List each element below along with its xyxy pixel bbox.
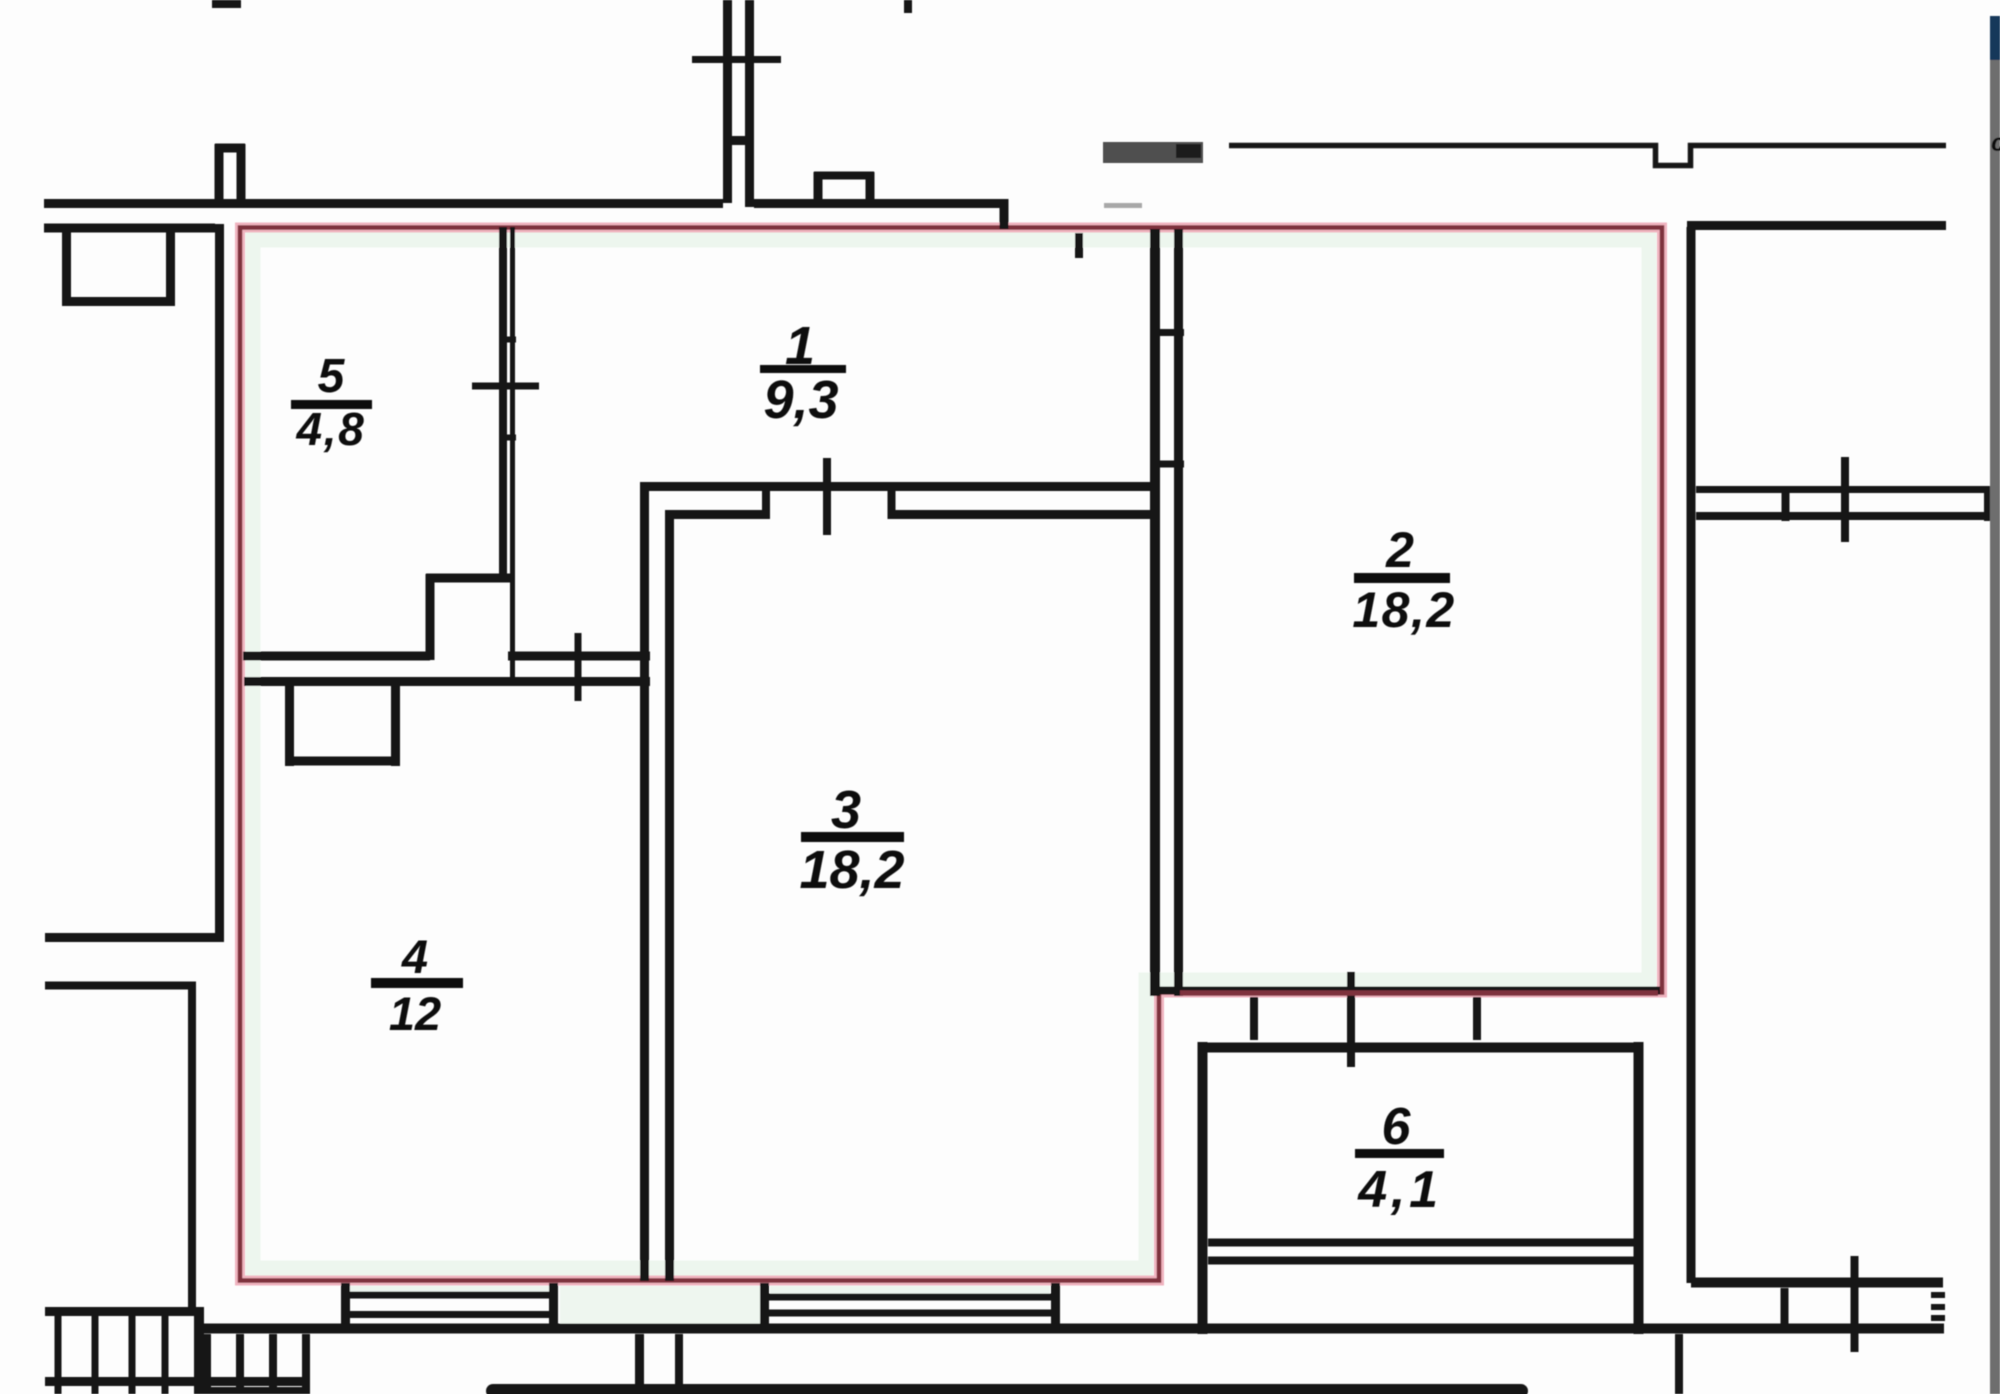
- door strip tint between windows: [560, 1286, 762, 1324]
- room4 top wall lower line: [244, 677, 650, 686]
- right edge navy block: [1990, 16, 2000, 60]
- room3 left wall outer / room3-room4 divider left: [640, 483, 649, 1281]
- svg-text:12: 12: [389, 987, 441, 1040]
- room label 3: [799, 780, 904, 900]
- right edge gray strip: [1990, 60, 2000, 1394]
- room6 top wall: [1199, 1043, 1643, 1053]
- ventilation shaft left line: [723, 0, 732, 203]
- bottom neighbour rounded bar: [486, 1384, 1528, 1394]
- window room3 upper sill line: [768, 1294, 1052, 1301]
- room6 left wall: [1198, 1042, 1208, 1334]
- jamb stub below top red wall: [1075, 233, 1083, 258]
- room1/room2 divider left line: [1150, 229, 1160, 996]
- window room4 jamb right: [549, 1283, 558, 1326]
- right neighbour interior jamb 2: [1984, 486, 1992, 521]
- room label 1: [760, 316, 846, 430]
- divider 1-2 crossbar upper: [1150, 329, 1184, 336]
- right neighbour bottom ladder marks: [1931, 1292, 1945, 1298]
- room6 inner rail lower line: [1208, 1257, 1643, 1265]
- apartment outline inner green glow: [253, 240, 1649, 1268]
- apartment bottom outer wall: [194, 1324, 1944, 1334]
- room3 top wall outer line: [640, 482, 1159, 491]
- verticals under room3/4 divider: [635, 1334, 644, 1387]
- right neighbour interior jamb: [1782, 486, 1790, 521]
- room label 5: [291, 350, 372, 455]
- left neighbour vertical wall: [188, 982, 196, 1316]
- pillar stub above top wall: [215, 144, 224, 203]
- right neighbour interior wall lower line: [1696, 512, 2000, 520]
- light gray dash: [1104, 203, 1142, 208]
- room5 step top line: [426, 574, 512, 583]
- room3 top wall window tick: [823, 458, 831, 535]
- top wall end hook: [1000, 199, 1009, 229]
- left staircase outer vertical: [194, 1307, 204, 1394]
- left neighbour balcony box: [62, 230, 71, 306]
- top right thin line with notch: [1229, 146, 1946, 166]
- apartment outline red boundary (dark core): [240, 228, 1662, 1281]
- window room4 lower sill line: [341, 1311, 558, 1318]
- bump above top wall: [814, 172, 823, 200]
- room5/room1 divider right line: [510, 227, 515, 682]
- right neighbour left wall: [1687, 227, 1696, 1283]
- right neighbour top wall: [1687, 221, 1946, 230]
- top outer wall (left of shaft): [44, 199, 723, 208]
- divider crossbar lower: [499, 435, 516, 441]
- top outer wall (right of shaft): [754, 199, 1008, 208]
- room1/room2 divider right line: [1174, 229, 1183, 996]
- left neighbour wall at y1311: [45, 1307, 199, 1316]
- svg-text:3: 3: [831, 780, 861, 840]
- room5/room1 divider left line: [499, 227, 507, 578]
- staircase bottom bar: [196, 1387, 310, 1394]
- svg-text:18,2: 18,2: [1352, 582, 1455, 638]
- divider crossbar upper: [499, 337, 516, 343]
- shaft crossbar: [723, 136, 754, 145]
- room3 top door jamb left: [762, 483, 770, 519]
- window room3 jamb left: [760, 1283, 769, 1327]
- apartment left outer wall: [215, 224, 224, 938]
- room5 step vertical: [426, 574, 435, 660]
- top-left black mark: [212, 0, 241, 8]
- vertical below bottom wall: [1675, 1334, 1683, 1394]
- room3 top wall inner line (left of door): [665, 510, 770, 519]
- red core overlay on room2 bottom wall: [1180, 990, 1658, 996]
- window strip tint room4: [350, 1286, 550, 1294]
- svg-text:2: 2: [1385, 522, 1414, 578]
- room5 bottom wall: [243, 652, 430, 661]
- svg-text:9,3: 9,3: [763, 370, 838, 430]
- window strip tint room3: [770, 1286, 1050, 1295]
- svg-text:c: c: [1991, 129, 2000, 157]
- room2/room6 window tick: [1347, 972, 1355, 1067]
- gray scan bar top: [1103, 142, 1203, 163]
- staircase treads row 2: [203, 1334, 211, 1394]
- window room4 jamb left: [341, 1283, 350, 1326]
- room6 right wall: [1634, 1042, 1644, 1334]
- svg-text:4: 4: [401, 930, 428, 983]
- right neighbour bottom window jamb: [1781, 1288, 1789, 1324]
- niche box in room4: [285, 684, 294, 766]
- right neighbour bottom window tick: [1851, 1256, 1859, 1352]
- right neighbour interior window tick: [1841, 457, 1849, 542]
- svg-text:6: 6: [1382, 1098, 1412, 1156]
- room1 bottom wall upper line: [508, 652, 650, 661]
- room label 4: [371, 930, 463, 1040]
- upper second wall (left): [44, 224, 215, 233]
- staircase treads row 1: [55, 1316, 62, 1394]
- room3 top wall inner line (right of door): [888, 510, 1158, 519]
- room label 6: [1355, 1098, 1444, 1219]
- svg-text:5: 5: [318, 350, 346, 403]
- right neighbour interior wall upper line: [1696, 486, 2000, 493]
- left neighbour wall at y985: [45, 982, 196, 990]
- room2 bottom wall black line: [1160, 987, 1660, 995]
- svg-text:4,8: 4,8: [295, 403, 365, 455]
- shaft window tick: [692, 56, 781, 63]
- svg-text:4,1: 4,1: [1357, 1161, 1441, 1219]
- top edge small tick: [904, 0, 912, 13]
- right neighbour bottom wall: [1691, 1278, 1943, 1288]
- window room4 upper sill line: [341, 1292, 558, 1299]
- staircase landing line: [45, 1377, 309, 1386]
- left neighbour wall at y937: [45, 933, 224, 942]
- window room3 jamb right: [1051, 1283, 1060, 1330]
- room2/room6 window jamb right: [1473, 997, 1481, 1040]
- svg-text:18,2: 18,2: [799, 840, 904, 900]
- window room3 lower sill line: [768, 1310, 1052, 1317]
- door tick in room1 bottom wall: [575, 633, 582, 701]
- divider window tick: [472, 383, 539, 390]
- room3 top door jamb right: [888, 483, 896, 519]
- room6 inner rail upper line: [1208, 1239, 1643, 1247]
- black accent on gray bar: [1176, 144, 1201, 158]
- divider 1-2 crossbar lower: [1150, 461, 1184, 468]
- room2/room6 window jamb left: [1250, 997, 1258, 1040]
- room label 2: [1352, 522, 1455, 638]
- apartment outline red boundary (pink halo): [240, 228, 1662, 1281]
- ventilation shaft right line: [745, 0, 754, 207]
- room3 left wall inner / room3-room4 divider right: [665, 511, 674, 1281]
